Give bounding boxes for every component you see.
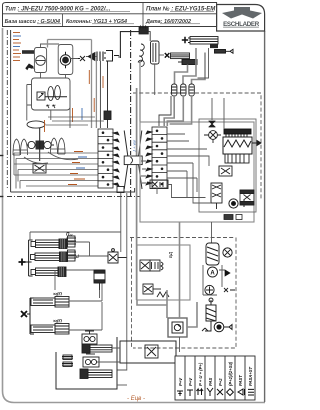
cross mark cyl2 xyxy=(165,53,170,58)
motor solenoid hatch xyxy=(206,298,216,321)
suction bell R2 xyxy=(58,138,65,154)
hose end fitting 1 xyxy=(172,84,177,96)
page border right xyxy=(264,31,266,402)
legend table grid xyxy=(175,356,255,400)
plus mark group1 xyxy=(19,259,26,266)
drain cross valve xyxy=(78,56,85,61)
bracket group1 xyxy=(26,240,33,276)
hoist assy 1 xyxy=(31,297,69,308)
svg-text:ESCHLADER: ESCHLADER xyxy=(223,21,260,28)
taper line left xyxy=(124,131,128,190)
pto pump box xyxy=(168,318,187,337)
bracket group2 xyxy=(27,298,34,334)
hand actuator symbol xyxy=(26,64,35,70)
drain tee xyxy=(202,321,211,331)
trailer dashed box left edge xyxy=(131,238,133,349)
svg-text:P+V: P+V xyxy=(178,377,183,386)
suction bell L2 xyxy=(21,139,28,155)
flow arrow right xyxy=(219,270,230,276)
svg-text:- Ецв -: - Ецв - xyxy=(127,396,145,402)
heater resistive wave xyxy=(224,140,251,147)
pump unit circle A xyxy=(208,267,218,277)
heater block top comb xyxy=(224,129,251,137)
title block column divider col colonnes xyxy=(62,14,64,27)
strip outlet box xyxy=(150,180,168,189)
separator plates xyxy=(97,52,103,62)
svg-text:P + U + (P+): P + U + (P+) xyxy=(198,362,203,386)
wire control to trailer xyxy=(211,222,213,243)
check valve Y xyxy=(86,53,95,61)
wire trunk mid xyxy=(30,193,127,370)
strip X2 arrows xyxy=(146,131,152,185)
legend symbols xyxy=(177,388,254,396)
bottom centre box inner xyxy=(145,345,158,358)
strip X1 pins xyxy=(102,131,110,185)
valve bank spring xyxy=(161,262,163,270)
ram cylinder 5 xyxy=(80,369,112,379)
title block outline xyxy=(3,3,217,27)
svg-text:A: A xyxy=(210,270,215,276)
svg-text:(P+2)/(2+S4): (P+2)/(2+S4) xyxy=(228,361,233,386)
pump unit circle T xyxy=(205,285,214,294)
sweep hose left xyxy=(24,157,48,163)
indicator circle ring xyxy=(229,199,244,208)
coupling box xyxy=(124,156,142,165)
four way valve body xyxy=(36,141,45,150)
wire control verticals xyxy=(141,98,224,203)
relay box square xyxy=(37,92,45,100)
svg-text:PASA+ST: PASA+ST xyxy=(248,366,253,386)
box edge component xyxy=(224,215,242,220)
ribbed union A xyxy=(67,236,77,247)
distribution valve DX xyxy=(108,249,127,263)
wire hoses to control xyxy=(164,96,191,126)
tiny union pair xyxy=(62,355,73,367)
motor M1 body xyxy=(58,45,73,75)
centre dash-dot divider lower xyxy=(130,168,132,196)
bus line 2 xyxy=(16,158,102,160)
wire cylinders right bus xyxy=(67,242,109,330)
label streak mid a xyxy=(45,70,104,150)
bus line 7 xyxy=(26,185,102,187)
svg-text:J + var: J + var xyxy=(132,139,137,153)
sweep hose right xyxy=(48,152,78,160)
control box outer gray xyxy=(140,122,254,222)
svg-text:d: d xyxy=(76,254,79,259)
ram cylinder 3 xyxy=(31,267,66,277)
solenoid coil a xyxy=(48,87,54,101)
wire black riser 3 xyxy=(99,61,101,128)
strip X1 arrows xyxy=(113,132,119,186)
pto pump inner xyxy=(172,322,183,333)
valve bank sq2 xyxy=(150,260,160,271)
gear pump unit 2 xyxy=(83,354,99,367)
hose coil xyxy=(138,44,144,66)
gauge circle bottom xyxy=(214,322,232,332)
valve bank sq1 xyxy=(140,260,150,271)
svg-text:P+V: P+V xyxy=(188,377,193,386)
bottom trunk black xyxy=(97,337,180,385)
suction bell L1 xyxy=(13,139,20,155)
control box inner xyxy=(199,119,256,212)
title block column divider col plan xyxy=(142,3,144,27)
cross mark group2 xyxy=(21,311,27,317)
inline fuse block xyxy=(104,61,111,128)
svg-text:Дата: 16/07/2002: Дата: 16/07/2002 xyxy=(145,19,191,25)
ram cylinder 2 xyxy=(31,252,68,262)
ram cylinder 1 xyxy=(31,239,67,249)
title block row divider xyxy=(3,13,217,15)
logo box xyxy=(217,5,265,32)
page scan edge left+bottom xyxy=(3,28,266,403)
fold tick upper xyxy=(0,155,3,157)
wire black drop xyxy=(159,96,171,126)
solenoid coil b xyxy=(55,86,61,100)
trailer valve bank outline xyxy=(137,245,190,300)
unit frame xyxy=(203,265,222,295)
filter housing capsule xyxy=(206,243,219,265)
svg-text:PAST: PAST xyxy=(238,375,243,386)
svg-text:База шасси : G-SU04: База шасси : G-SU04 xyxy=(5,19,60,25)
wire relay left xyxy=(27,85,32,121)
solid boundary bottom line xyxy=(11,188,135,192)
coupler head c1 xyxy=(210,44,218,49)
ribbed cross box xyxy=(240,190,254,205)
bottom centre box xyxy=(120,341,176,363)
ram cylinder 4 xyxy=(82,344,112,353)
wire gray riser 2 xyxy=(95,61,97,128)
wire label stack left xyxy=(13,33,21,61)
trailer dashed box lower xyxy=(133,238,236,349)
valve stem xyxy=(27,128,54,161)
dryer capsule xyxy=(151,41,160,64)
title underlines xyxy=(18,12,214,24)
bottom cluster box xyxy=(56,337,117,389)
feed relay block xyxy=(139,26,148,35)
four way valve left arc xyxy=(28,141,35,148)
heater body box xyxy=(223,137,252,154)
fan circle xyxy=(204,131,221,143)
solenoid valve SV1 xyxy=(211,183,222,209)
wire top feed right xyxy=(120,32,141,58)
relay coil box xyxy=(219,166,232,176)
svg-text:×dП: ×dП xyxy=(53,319,62,324)
bus labels xyxy=(68,152,87,185)
bus line 6 xyxy=(20,180,102,182)
wire pump top xyxy=(41,44,60,48)
wire relay down a xyxy=(51,95,70,128)
legend texts xyxy=(178,361,253,386)
trailer dashed box bottom band xyxy=(130,237,234,239)
ribbed union B xyxy=(67,250,77,261)
bus line 4 xyxy=(18,169,102,171)
plus mark cyl1 xyxy=(182,37,188,43)
hose end fitting 3 xyxy=(189,84,194,96)
feed wire down to dryer xyxy=(148,32,150,41)
terminal strip X1 left xyxy=(98,129,113,188)
gauge G1 xyxy=(36,56,46,66)
svg-text:×dП: ×dП xyxy=(53,292,62,297)
logo eagle glyph xyxy=(222,7,262,19)
svg-text:PAS: PAS xyxy=(208,377,213,386)
gear pump unit 1 xyxy=(82,331,97,344)
truck boundary dash-dot vertical xyxy=(6,30,8,188)
cluster feed wires xyxy=(46,117,104,125)
taper line right xyxy=(139,131,142,190)
heater lower box xyxy=(225,154,249,163)
pump P1 body xyxy=(34,48,46,73)
hose wires down xyxy=(175,48,206,85)
gray feed lines bottom xyxy=(137,222,197,327)
boundary fitting xyxy=(117,187,124,193)
relay pin marks xyxy=(46,105,55,109)
strip X2 feed wires xyxy=(167,134,193,156)
relay box R1 xyxy=(32,78,71,110)
svg-text:P+2: P+2 xyxy=(218,378,223,386)
svg-text:БД: БД xyxy=(168,251,173,258)
bus line 5 xyxy=(14,174,99,176)
bus left drops xyxy=(14,153,20,189)
truck boundary bottom dash-dot xyxy=(7,196,140,198)
trailer dashed box top xyxy=(133,93,261,200)
gray trunk wire centre xyxy=(136,88,138,300)
bus line 3 xyxy=(14,163,99,165)
lamp cross circle xyxy=(223,248,232,257)
valve bank sq3 xyxy=(143,284,161,294)
label plate K1 xyxy=(22,50,35,54)
wire gauge down xyxy=(41,73,66,79)
bus line 1 xyxy=(14,152,99,154)
check symbol xyxy=(224,288,235,292)
suction bell R1 xyxy=(51,138,58,154)
truck boundary solid vertical xyxy=(10,30,12,192)
hose wire routing xyxy=(140,48,209,122)
four way valve right arc xyxy=(44,141,51,148)
centre dash-dot divider xyxy=(130,30,132,155)
svg-text:Колонны: YG13 + YG54: Колонны: YG13 + YG54 xyxy=(66,19,127,25)
terminal strip X2 right xyxy=(152,127,167,188)
wire gray riser 1 xyxy=(48,40,92,129)
strip X2 pins xyxy=(156,130,164,186)
accumulator capsule xyxy=(94,270,105,290)
flat coil loop xyxy=(27,121,45,128)
coupler bar c2 xyxy=(215,49,234,53)
hose coil cylinder1 xyxy=(188,37,218,45)
wire component row feed xyxy=(70,56,119,59)
hoist assy 2 xyxy=(31,324,69,335)
valve lower cross box xyxy=(33,164,46,174)
heater outlet arrow xyxy=(252,141,261,146)
relay bar xyxy=(45,96,67,98)
valve bank zigzag xyxy=(157,292,169,297)
coupler head c3 xyxy=(178,60,197,65)
hose end fitting 2 xyxy=(181,84,186,96)
motor M1 xyxy=(60,52,70,68)
fold tick lower xyxy=(0,196,3,198)
clamp coupling xyxy=(104,51,119,62)
hose coil cylinder2 xyxy=(171,53,190,59)
junction valve bowtie xyxy=(209,121,215,127)
